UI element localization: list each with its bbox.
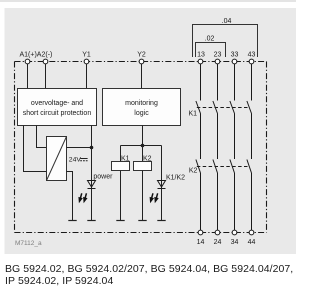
pole 13-14 wires	[200, 64, 202, 101]
contact K2 blade pole2	[213, 160, 218, 174]
svg-text:A1(+)A2(-): A1(+)A2(-)	[20, 51, 53, 58]
svg-text:monitoring: monitoring	[125, 100, 158, 107]
svg-text:logic: logic	[134, 110, 149, 117]
contact K2 blade pole1	[196, 160, 201, 174]
terminal circles top	[25, 59, 254, 235]
contact poles: drops from terminals 13 23 33 43	[196, 64, 252, 230]
wire A1 drop	[27, 64, 29, 89]
terminal A1	[25, 59, 30, 64]
svg-text:33: 33	[231, 52, 239, 59]
svg-text:.02: .02	[205, 36, 215, 43]
box U1 overvoltage and short circuit protection	[18, 89, 97, 126]
wire relay K1 to ground	[120, 171, 122, 221]
wire node K through LED K1/K2	[161, 146, 163, 189]
svg-text:K2: K2	[189, 168, 198, 175]
wire node V+ down through LED power	[91, 148, 93, 189]
box U2 monitoring logic	[103, 89, 181, 126]
LED light arrows power	[79, 193, 87, 202]
svg-text:13: 13	[197, 52, 205, 59]
terminal 24	[215, 230, 220, 235]
svg-text:34: 34	[231, 239, 239, 246]
contact K2 blade pole4	[247, 160, 252, 174]
svg-text:14: 14	[197, 239, 205, 246]
svg-text:43: 43	[248, 52, 256, 59]
svg-text:K1: K1	[121, 155, 130, 162]
ground T LED K1/K2	[157, 220, 165, 222]
ground T converter	[68, 220, 76, 222]
svg-text:power: power	[93, 174, 113, 181]
wire LED K1/K2 to ground	[161, 189, 163, 221]
wire protection out mid	[37, 126, 47, 148]
LED D1 power	[88, 181, 96, 189]
border left	[14, 62, 16, 233]
wire monitoring out to node K	[142, 126, 144, 146]
wire converter out right to node V+	[67, 147, 92, 149]
svg-text:.04: .04	[222, 18, 232, 25]
svg-text:short circuit protection: short circuit protection	[23, 110, 92, 117]
svg-text:M7112_a: M7112_a	[15, 240, 42, 247]
svg-text:K1: K1	[189, 111, 198, 118]
wire node K rail	[121, 145, 162, 147]
ground T relay K2	[138, 220, 146, 222]
relay coil K1	[112, 162, 130, 171]
wire A2 drop	[45, 64, 47, 89]
terminal 33	[232, 59, 237, 64]
relay coil K2	[134, 162, 152, 171]
svg-text:Y2: Y2	[137, 51, 146, 58]
contact K1 blade pole4	[247, 101, 252, 114]
LED D2 K1/K2	[158, 181, 166, 189]
svg-text:K2: K2	[143, 155, 152, 162]
terminal Y1	[84, 59, 89, 64]
pole 43-44 wires	[251, 64, 253, 101]
terminal Y2	[139, 59, 144, 64]
contact K1 blade pole1	[196, 101, 201, 114]
wire converter out to ground	[67, 172, 73, 221]
contact K1 blade pole3	[230, 101, 235, 114]
border top	[15, 61, 267, 63]
DC symbol after 24V	[80, 159, 87, 161]
pole 33-34 wires	[234, 64, 236, 101]
dash-dot enclosure border	[15, 62, 267, 233]
terminal 23	[215, 59, 220, 64]
terminal 34	[232, 230, 237, 235]
LED light arrows K1/K2	[150, 193, 158, 202]
wire protection out right to node V+	[91, 126, 93, 148]
terminal 13	[198, 59, 203, 64]
linkage K2 dashed	[197, 166, 248, 168]
gray diagram panel	[5, 8, 297, 254]
terminal 44	[249, 230, 254, 235]
terminal A2	[43, 59, 48, 64]
pole 23-24 wires	[217, 64, 219, 101]
contact K2 blade pole3	[230, 160, 235, 174]
wire LED power to ground	[91, 189, 93, 221]
wire to relay K2 coil	[142, 146, 144, 162]
svg-text:24: 24	[214, 239, 222, 246]
wire Y1 drop	[86, 64, 88, 89]
svg-text:Y1: Y1	[82, 51, 91, 58]
border right	[266, 62, 268, 233]
ground T power LED	[87, 220, 95, 222]
top cropped gray strip	[0, 0, 296, 2]
terminal 14	[198, 230, 203, 235]
svg-text:24V: 24V	[69, 157, 82, 164]
wire relay K2 to ground	[142, 171, 144, 221]
wire to relay K1 coil	[120, 146, 122, 162]
node V+ junction dot	[90, 146, 94, 150]
node K junction dot	[141, 144, 145, 148]
svg-text:23: 23	[214, 52, 222, 59]
dimension bracket .04	[193, 25, 258, 58]
svg-text:K1/K2: K1/K2	[166, 175, 185, 182]
svg-text:overvoltage- and: overvoltage- and	[31, 100, 83, 107]
dimension bracket .02	[196, 43, 226, 58]
svg-text:44: 44	[248, 239, 256, 246]
power supply converter box	[47, 137, 67, 181]
contact K1 blade pole2	[213, 101, 218, 114]
wire Y2 drop	[141, 64, 143, 89]
ground T relay K1	[116, 220, 124, 222]
linkage K1 dashed	[197, 107, 248, 109]
border bottom	[15, 232, 267, 234]
wire protection out left	[24, 126, 47, 172]
terminal 43	[249, 59, 254, 64]
caption text	[5, 264, 298, 287]
